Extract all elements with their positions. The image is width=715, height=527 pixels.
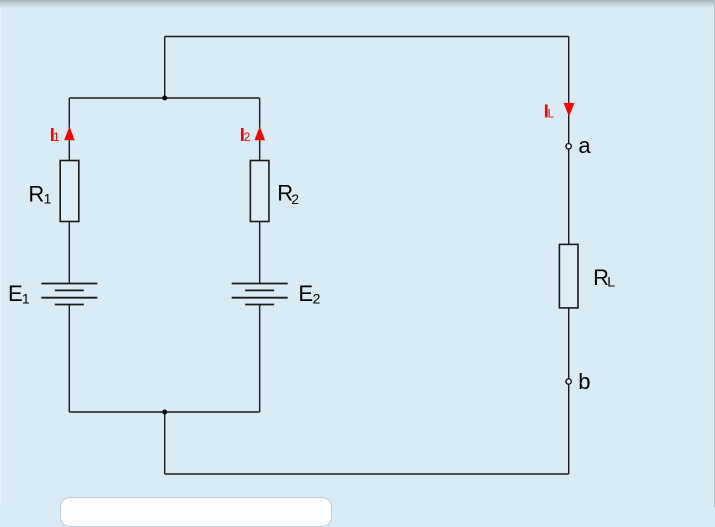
- wire upper rail between R1 and R2 branches: [69, 97, 259, 99]
- wire middle branch upper (rail to R2): [259, 98, 261, 161]
- wire left branch lower (E1 to bottom rail): [68, 305, 70, 413]
- resistor R1: [60, 161, 79, 222]
- current arrow IL: [564, 103, 575, 117]
- wire top-left vertical drop: [164, 37, 166, 99]
- svg-text:L: L: [548, 108, 555, 120]
- wire bottom center drop: [164, 412, 166, 474]
- svg-text:2: 2: [244, 130, 251, 144]
- svg-text:E: E: [8, 281, 23, 306]
- node b: [566, 379, 571, 384]
- resistor RL: [559, 244, 578, 308]
- svg-text:L: L: [607, 273, 615, 289]
- current arrow I1: [64, 126, 75, 140]
- svg-text:R: R: [28, 182, 44, 207]
- svg-text:2: 2: [291, 191, 299, 207]
- wire right branch vertical: [568, 37, 570, 475]
- battery E2: [232, 284, 288, 305]
- svg-text:1: 1: [53, 130, 60, 144]
- right window border: [714, 0, 715, 507]
- svg-text:E: E: [298, 281, 313, 306]
- node a: [566, 144, 571, 149]
- svg-text:2: 2: [313, 291, 321, 307]
- current arrow I2: [254, 126, 265, 140]
- svg-text:b: b: [578, 369, 590, 394]
- wire left branch middle (R1 to E1): [68, 222, 70, 284]
- bottom panel (cut off): [60, 497, 332, 527]
- svg-text:1: 1: [22, 290, 30, 306]
- battery E1: [41, 284, 97, 305]
- junction dot top: [162, 96, 167, 101]
- wire bottom rail between branches: [69, 411, 259, 413]
- wire middle branch lower (E2 to bottom rail): [259, 305, 261, 413]
- wire bottom horizontal: [165, 473, 569, 475]
- junction dot bottom: [162, 410, 167, 415]
- left window edge: [0, 8, 1, 507]
- svg-text:1: 1: [44, 191, 52, 207]
- top gradient shadow: [0, 0, 715, 8]
- wire left branch upper (rail to R1): [68, 98, 70, 161]
- wire middle branch middle (R2 to E2): [259, 222, 261, 284]
- svg-text:a: a: [578, 133, 591, 158]
- resistor R2: [250, 161, 269, 222]
- wire top horizontal: [165, 36, 569, 38]
